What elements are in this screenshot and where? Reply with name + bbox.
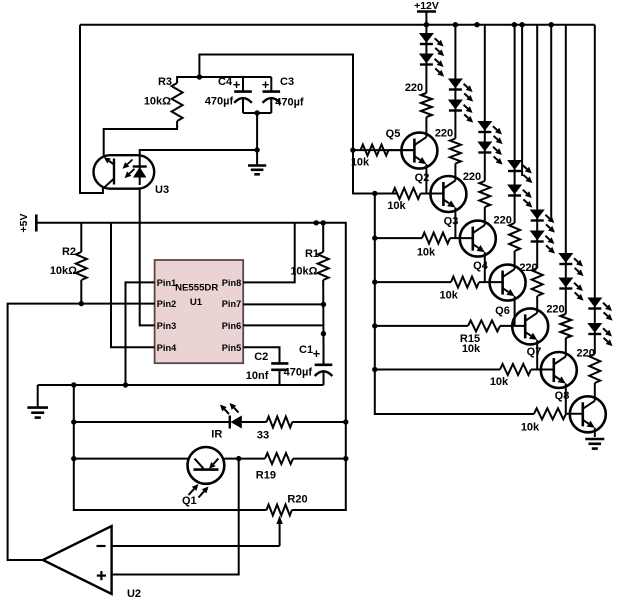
wire to 10k Q7 [375,369,500,371]
svg-text:10k: 10k [440,290,459,302]
svg-text:U1: U1 [190,297,203,308]
svg-text:220: 220 [519,262,537,274]
LED D7 [508,161,532,184]
wire LED branch 3 [484,25,486,181]
LED D13 [588,298,612,321]
resistor 220 branch 4 [509,223,520,251]
svg-text:+5V: +5V [18,214,30,233]
svg-text:10k: 10k [462,343,481,355]
wire Q8 base [566,413,583,415]
wire U2 output [8,559,43,561]
junction R1 top [321,220,326,225]
LED D6 [478,142,502,165]
junction Q1/U2+ [236,456,241,461]
wire LED branch 6 [565,25,567,314]
svg-text:NE555DR: NE555DR [175,283,218,294]
wire R2 top [80,223,82,252]
transistor Q4 [490,265,526,301]
wire +5V rail and right drop to R20 [36,223,346,510]
wire collector [536,296,538,313]
svg-text:Pin2: Pin2 [157,299,176,309]
wire to Q1 [74,458,188,460]
svg-text:220: 220 [405,82,423,94]
svg-text:C3: C3 [280,76,294,88]
wire Q2 base [421,193,444,195]
resistor R19 [265,453,293,464]
svg-text:R2: R2 [62,246,76,258]
wire collector [454,164,456,181]
resistor R1 [318,252,329,280]
wire R1 bottom to C1 [322,280,324,345]
capacitor C3 [263,77,281,113]
svg-text:Pin6: Pin6 [222,321,241,331]
transistor Q3 [460,221,496,257]
svg-text:R19: R19 [256,470,276,482]
wire collector [484,207,486,225]
svg-text:470µf: 470µf [284,367,313,379]
wire U2 plus input to Q1 [112,459,239,575]
node bus B [375,194,534,415]
svg-text:+: + [262,77,270,92]
wire to 10k Q3 [375,237,422,239]
wire LED branch 5 [536,25,538,268]
resistor 220 branch 2 [450,139,461,164]
svg-text:R3: R3 [158,76,172,88]
junction IR row [343,419,348,424]
wire emitter to next base [484,252,486,282]
svg-text:10kΩ: 10kΩ [50,265,77,277]
wire LED branch 1 [425,25,427,93]
wire left loop to U3 collector pin [80,25,103,193]
svg-text:Q7: Q7 [527,346,542,358]
transistor Q7 [541,352,577,388]
junction dot below Pin6 [321,331,326,336]
svg-text:C2: C2 [254,351,268,363]
junction R2/Pin2 [79,301,84,306]
resistor 220 branch 3 [479,181,490,207]
svg-text:220: 220 [494,215,512,227]
svg-text:Pin8: Pin8 [222,278,241,288]
svg-text:Q1: Q1 [182,495,197,507]
resistor 10k base Q4 [451,277,479,288]
resistor 10k base Q8 [534,408,566,419]
junction bus B top [372,191,377,196]
svg-text:Q2: Q2 [415,172,430,184]
junction base tap [372,367,377,372]
capacitor C2 [271,363,288,385]
resistor R2 [76,252,87,280]
wire Pin1 to ground rail [126,282,155,385]
svg-text:10k: 10k [417,247,436,259]
junction branch2 [453,22,458,27]
svg-text:Q8: Q8 [555,390,570,402]
junction U3 cathode wire [254,147,259,152]
svg-text:Pin5: Pin5 [222,343,241,353]
wire IR to 33 [242,421,267,423]
transistor Q2 [430,176,466,212]
wire stub down [521,25,523,176]
svg-text:220: 220 [435,128,453,140]
LED D8 [508,185,532,208]
resistor R15 10k base Q6 [468,320,500,331]
junction R3/C4/bus [197,74,202,79]
resistor 220 branch 5 [532,268,543,296]
wire Q6 base [500,325,525,327]
LED D10 [531,231,555,254]
wire Q7 base [531,369,554,371]
junction base tap [372,279,377,284]
svg-text:U3: U3 [155,184,169,196]
wire C2 bottom [279,369,281,385]
junction base tap [372,323,377,328]
wire Pin3 to U3 LED anode [140,189,155,326]
wire Pin5 to C2 [243,347,279,363]
svg-text:220: 220 [546,304,564,316]
LED D14 [588,324,612,347]
svg-text:Q5: Q5 [386,128,401,140]
svg-text:Pin4: Pin4 [157,343,177,353]
wire emitter to ground [594,428,596,437]
wire R2 bottom [80,280,82,304]
LED D1 [420,34,444,57]
node bus A from R3/C4 junction [199,55,398,194]
ground C3/C4 [248,166,266,175]
junction Pin7/R1 [321,302,326,307]
svg-text:+: + [233,77,241,92]
resistor 10k base Q7 [500,364,531,375]
wire Q3 base [450,237,473,239]
junction stub2 [549,22,554,27]
transistor Q5 [401,133,437,169]
resistor 220 branch 7 [589,354,600,383]
svg-text:C4: C4 [218,76,233,88]
wire emitter to next base [454,208,456,239]
transistor Q8 [570,396,606,432]
transistor Q1 phototransistor [188,447,225,498]
LED D5 [478,122,502,145]
LED D9 [531,210,555,233]
svg-text:10kΩ: 10kΩ [144,96,171,108]
resistor 10k base Q3 [422,233,450,244]
svg-text:10nf: 10nf [246,370,269,382]
junction branch4 [512,22,517,27]
wire U3 emitter pin to R3 [104,121,177,155]
resistor 220 branch 1 [421,93,432,117]
svg-text:220: 220 [577,348,595,360]
junction dot rail [314,220,319,225]
junction IR row [71,419,76,424]
junction base tap [372,235,377,240]
wire to 10k Q4 [375,281,451,283]
wire stub down [550,25,552,222]
svg-text:10k: 10k [387,200,406,212]
wire Pin4 to +5V [111,223,155,347]
svg-text:R20: R20 [287,494,307,506]
wire LED branch 4 [514,25,516,223]
wire Pin7 [243,303,323,305]
wire +12V rail [80,24,595,26]
LED IR [220,403,242,429]
wire base Q5 [353,149,415,151]
wire Pin6 [243,324,323,326]
resistor 33 [267,417,293,428]
resistor 10k base Q2 [393,188,421,199]
LED D12 [559,278,583,301]
svg-text:10k: 10k [351,157,370,169]
capacitor C1 [315,345,333,385]
svg-text:U2: U2 [127,588,141,600]
wire emitter to next base [565,384,567,414]
LED D2 [420,54,444,77]
LED D4 [449,100,473,123]
LED D11 [559,254,583,277]
svg-text:470µf: 470µf [205,96,234,108]
wire LED branch 2 [454,25,456,139]
wire left bus to R20 [74,385,267,510]
svg-text:+12V: +12V [414,0,439,12]
wire collector [594,383,596,401]
svg-text:33: 33 [257,430,269,442]
op-amp U2 [43,526,112,594]
svg-text:Pin7: Pin7 [222,299,241,309]
wire R19 to right bus [293,458,346,460]
wire ground rail [38,384,324,386]
junction bus tap [71,382,76,387]
wire Pin8 to +5V [243,223,295,283]
wire to IR LED [74,421,230,423]
LED D3 [449,79,473,102]
svg-text:220: 220 [463,171,481,183]
ground main [27,385,48,418]
+12V supply [414,0,439,25]
resistor 10k base Q5 [361,145,389,156]
wire LED branch 7 [594,25,596,354]
wire Q4 base [479,281,503,283]
wire U3 LED cathode to caps ground [140,150,257,155]
wire to 10k R15 Q6 [375,325,468,327]
capacitor C4 [234,77,252,113]
R20 wiper [276,516,282,547]
junction dot [474,22,479,27]
wire U2 minus input to R20 wiper [112,545,280,547]
svg-text:R1: R1 [305,248,319,260]
resistor R20 [267,505,292,516]
IC U1 NE555DR [155,260,244,363]
junction Q1 row [71,456,76,461]
wire Q5 base entry [389,149,413,151]
svg-text:10k: 10k [521,422,540,434]
wire R3 top junction [177,77,271,83]
resistor 220 branch 6 [560,314,571,338]
resistor R3 [172,83,183,121]
wire collector [514,251,516,269]
junction +12V/branch1 [424,22,429,27]
svg-text:10k: 10k [490,376,509,388]
wire Q1 to R19 [224,458,265,460]
wire cap bottoms [243,112,271,114]
junction caps [254,110,259,115]
svg-text:Pin1: Pin1 [157,278,176,288]
svg-text:Pin3: Pin3 [157,321,176,331]
+5V supply [18,214,36,233]
junction stub1 [519,22,524,27]
svg-text:Q6: Q6 [495,305,510,317]
optocoupler U3 [94,155,155,189]
junction Q5 base tap [350,147,355,152]
svg-text:+: + [313,346,321,361]
wire collector [565,338,567,357]
transistor Q6 [512,308,548,344]
ground under Q8 [585,439,604,449]
wire emitter to next base [425,164,427,193]
wire collector [425,117,427,137]
wire R1 top [322,223,324,252]
wire emitter to next base [514,296,516,326]
wire emitter to next base [536,340,538,370]
junction R19 row [343,456,348,461]
svg-text:Q4: Q4 [473,260,489,272]
wire Pin2 to U2 output [8,304,155,560]
wire 33 to right bus [292,421,346,423]
svg-text:Q3: Q3 [444,216,459,228]
svg-text:470µf: 470µf [275,97,304,109]
junction Pin1/ground [123,382,128,387]
svg-text:IR: IR [211,429,222,441]
svg-text:C1: C1 [299,344,313,356]
wire caps to ground [256,113,258,166]
